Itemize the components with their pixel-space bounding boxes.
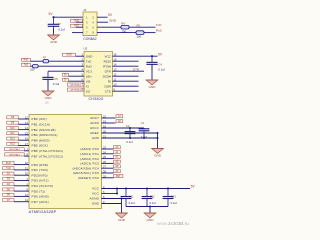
- svg-text:D12: D12: [10, 137, 15, 140]
- wire U2 DTR: [113, 70, 145, 72]
- svg-text:TxD: TxD: [86, 59, 92, 63]
- wire ADC6: [102, 122, 116, 124]
- junction 5V/C7: [52, 16, 54, 18]
- net label D6 (U1 PD6): [3, 193, 14, 196]
- capacitor C2: [125, 128, 136, 138]
- svg-text:CTS: CTS: [105, 89, 111, 93]
- wire D+ to U2: [68, 75, 84, 77]
- svg-text:V3.3: V3.3: [86, 69, 93, 73]
- svg-text:(RESET) PC6: (RESET) PC6: [78, 176, 99, 180]
- net label D5 (U1 PD5): [3, 188, 14, 191]
- wire J1 pin4 to GND: [97, 21, 108, 23]
- junction GND rail end: [156, 137, 158, 139]
- resistor R5: [136, 31, 144, 35]
- svg-text:(ADC2) PC2: (ADC2) PC2: [80, 157, 99, 161]
- junction C2/GND: [129, 137, 131, 139]
- wire GND bus drop: [149, 207, 151, 214]
- wire: [14, 164, 29, 166]
- junction VCC/C4: [151, 55, 153, 57]
- svg-text:XI: XI: [86, 84, 89, 88]
- svg-text:CRYSTAL2: CRYSTAL2: [70, 88, 82, 91]
- svg-text:PB6 (XTAL1/TOSC1): PB6 (XTAL1/TOSC1): [32, 149, 64, 153]
- net label D+ (U2 UD+): [63, 73, 69, 76]
- wire U2 V3.3 to C5: [48, 70, 84, 72]
- svg-text:PB2 (SS/OC1B): PB2 (SS/OC1B): [32, 128, 56, 132]
- svg-text:GND: GND: [109, 18, 117, 22]
- svg-text:CON6A2: CON6A2: [83, 37, 96, 41]
- net label RxD (U1 PD0): [3, 161, 14, 164]
- svg-text:CRYSTAL1: CRYSTAL1: [70, 83, 82, 86]
- svg-text:D11: D11: [10, 132, 15, 135]
- wire: [24, 150, 29, 152]
- wire GND label to U2: [76, 55, 85, 57]
- resistor R8: [33, 65, 39, 68]
- wire R5 to RxD: [144, 32, 156, 34]
- resistor R7: [43, 60, 49, 63]
- wire: [18, 129, 29, 131]
- wire: [14, 180, 29, 182]
- wire: [18, 118, 29, 120]
- net label RST: [114, 175, 123, 178]
- svg-text:RxD: RxD: [6, 162, 11, 165]
- svg-text:RTS#: RTS#: [103, 64, 111, 68]
- svg-text:(ADC0) PC0: (ADC0) PC0: [80, 147, 99, 151]
- net label TxD (U1 PD1): [3, 167, 14, 170]
- capacitor C11: [121, 189, 132, 207]
- svg-text:D10: D10: [10, 127, 15, 130]
- net label RST (J1 pin5): [71, 24, 83, 27]
- junction VCC1: [116, 187, 118, 189]
- net label A5: [114, 170, 121, 173]
- svg-text:TxD: TxD: [6, 167, 11, 170]
- wire U2 RTS# stub: [113, 65, 139, 67]
- svg-text:ADC6: ADC6: [90, 121, 99, 125]
- wire J1 pin7 stub: [72, 32, 83, 34]
- svg-text:CH340G: CH340G: [89, 97, 104, 101]
- wire: [102, 162, 114, 164]
- ground (decoupling caps): [144, 213, 156, 222]
- svg-text:AVCC: AVCC: [90, 126, 100, 130]
- svg-text:TxD: TxD: [156, 23, 162, 27]
- svg-text:PB0 (ICP): PB0 (ICP): [32, 117, 47, 121]
- net label A7: [116, 115, 123, 118]
- wire: [102, 158, 114, 160]
- wire: [14, 174, 29, 176]
- svg-text:C13: C13: [171, 194, 177, 198]
- wire R8 to U2 pin3: [38, 65, 84, 67]
- ground (C5): [42, 91, 54, 100]
- wire AREF rail: [102, 132, 158, 134]
- svg-text:GND: GND: [50, 40, 58, 44]
- ground (analog rails): [152, 149, 164, 158]
- svg-text:GND: GND: [149, 85, 157, 89]
- capacitor C5: [42, 71, 53, 85]
- svg-text:CRYSTAL2: CRYSTAL2: [9, 153, 21, 156]
- svg-text:GND: GND: [147, 218, 155, 222]
- net label A0: [114, 146, 121, 149]
- svg-text:C11: C11: [129, 194, 134, 198]
- svg-text:C7: C7: [57, 22, 61, 26]
- wire GND: [102, 203, 122, 205]
- junction C1/GND: [143, 137, 145, 139]
- svg-text:PD5 (T1): PD5 (T1): [32, 189, 46, 193]
- wire GND rail (analog): [102, 137, 158, 139]
- net label A4: [114, 165, 121, 168]
- junction C11/5V: [125, 187, 127, 189]
- wire R7 to U2 pin2: [49, 60, 84, 62]
- svg-text:RxD: RxD: [24, 59, 29, 62]
- wire: [18, 139, 29, 141]
- wire U2 DCD# stub: [113, 75, 139, 77]
- net label GND (J1 pin3): [71, 19, 83, 22]
- svg-text:U1: U1: [45, 100, 49, 104]
- ground (C7): [48, 35, 60, 44]
- svg-text:J1: J1: [83, 8, 86, 12]
- svg-text:PD1 (TXD): PD1 (TXD): [32, 168, 49, 172]
- wire: [14, 190, 29, 192]
- svg-text:RxD: RxD: [156, 29, 163, 33]
- svg-text:DSR: DSR: [104, 84, 111, 88]
- svg-text:ATMEGA328P: ATMEGA328P: [29, 209, 57, 214]
- wire: [102, 167, 114, 169]
- svg-text:(ADC3) PC3: (ADC3) PC3: [80, 162, 99, 166]
- wire U2 RI stub: [113, 80, 139, 82]
- net label A6: [116, 120, 123, 123]
- wire C7 to GND: [53, 29, 55, 35]
- svg-text:C4: C4: [158, 63, 162, 67]
- junction AGND: [120, 197, 122, 199]
- svg-text:0.1uf: 0.1uf: [129, 201, 135, 205]
- svg-text:VCC: VCC: [92, 187, 100, 191]
- wire: [18, 145, 29, 147]
- svg-text:R5: R5: [137, 23, 141, 27]
- net label GND (U2 pin1): [63, 53, 76, 56]
- net label D10 (U1 PB2): [7, 126, 18, 129]
- wire: [18, 134, 29, 136]
- ground (U1): [116, 213, 128, 222]
- wire J1 pin2 to 5V: [97, 16, 108, 18]
- svg-text:PB7 (XTAL2/TOSC2): PB7 (XTAL2/TOSC2): [32, 154, 64, 158]
- svg-text:XO: XO: [86, 89, 91, 93]
- svg-text:PB3 (MOSI/OC2): PB3 (MOSI/OC2): [32, 133, 58, 137]
- svg-text:R6: R6: [121, 22, 125, 26]
- wire VCC2: [102, 193, 118, 195]
- wire: [24, 155, 29, 157]
- svg-text:U2: U2: [84, 47, 88, 51]
- op IC U2 CH340G: [84, 52, 113, 97]
- wire U2 DSR stub: [113, 85, 139, 87]
- net label TxD (to U2 RxD): [22, 63, 31, 66]
- svg-text:PB1 (OC1A): PB1 (OC1A): [32, 122, 51, 126]
- svg-text:(ADC1) PC1: (ADC1) PC1: [80, 152, 99, 156]
- svg-text:GND: GND: [118, 218, 126, 222]
- svg-text:PD4 (XCK/T0): PD4 (XCK/T0): [32, 184, 54, 188]
- capacitor C12: [142, 189, 153, 207]
- svg-text:PB4 (MISO): PB4 (MISO): [32, 138, 50, 142]
- net label D13 (U1 PB5): [7, 142, 18, 145]
- svg-text:GND: GND: [66, 54, 72, 57]
- svg-text:D-: D-: [64, 79, 67, 82]
- svg-text:D13: D13: [10, 143, 15, 146]
- wire TxD to R8: [30, 65, 32, 67]
- svg-text:GND: GND: [92, 136, 100, 140]
- svg-text:0.1uf: 0.1uf: [58, 27, 65, 31]
- svg-text:PD3 (INT1): PD3 (INT1): [32, 179, 49, 183]
- capacitor C7: [48, 17, 60, 31]
- wire AVCC rail: [102, 127, 145, 129]
- capacitor C4: [146, 56, 157, 70]
- svg-text:DTR: DTR: [133, 68, 139, 72]
- wire: [14, 185, 29, 187]
- net label D- (U2 UD-): [63, 78, 69, 81]
- net label D3 (U1 PD3): [3, 177, 14, 180]
- svg-text:RI: RI: [108, 79, 111, 83]
- wire: [14, 201, 29, 203]
- svg-text:PB5 (SCK): PB5 (SCK): [32, 144, 49, 148]
- connector J1 CON6A2: [83, 12, 97, 36]
- net label A2: [114, 155, 121, 158]
- svg-text:GND: GND: [154, 154, 162, 158]
- net label A1: [114, 151, 121, 154]
- svg-text:C5: C5: [54, 77, 58, 81]
- svg-text:PD2(INT0): PD2(INT0): [32, 173, 48, 177]
- svg-text:0.1uf: 0.1uf: [53, 82, 60, 86]
- svg-text:AREF: AREF: [90, 131, 99, 135]
- wire RST label to J1: [76, 26, 83, 28]
- wire: [14, 195, 29, 197]
- net label CRYSTAL1 (U2 XI): [67, 83, 84, 86]
- net label RxD (to U2 TxD): [22, 58, 31, 61]
- svg-text:AGND: AGND: [89, 197, 99, 201]
- wire U2 VCC to 5V: [113, 55, 158, 57]
- junction VCC2: [116, 192, 118, 194]
- net label D8 (U1 PB0): [7, 116, 18, 119]
- junction C2/AVCC: [129, 127, 131, 129]
- svg-text:330: 330: [30, 68, 35, 72]
- MCU U1 ATMEGA328P: [29, 115, 102, 209]
- svg-text:C2: C2: [126, 124, 130, 128]
- svg-text:RxD: RxD: [86, 64, 93, 68]
- wire decoupling GND bus: [126, 206, 168, 208]
- resistor R6: [121, 25, 129, 29]
- svg-text:VCC: VCC: [104, 54, 111, 58]
- svg-text:R7: R7: [43, 55, 47, 59]
- capacitor C1: [139, 128, 150, 138]
- wire: [102, 148, 114, 150]
- wire J1 pin8 to R5: [97, 32, 136, 34]
- svg-text:100: 100: [137, 35, 142, 39]
- wire GND label to J1: [76, 21, 83, 23]
- net label D9 (U1 PB1): [7, 121, 18, 124]
- svg-text:C12: C12: [150, 194, 156, 198]
- net label D12 (U1 PB4): [7, 137, 18, 140]
- svg-text:UD+: UD+: [86, 74, 92, 78]
- wire U2 CTS stub: [113, 90, 139, 92]
- svg-text:0.1uf: 0.1uf: [150, 201, 156, 205]
- svg-text:PD0 (RXD): PD0 (RXD): [32, 163, 49, 167]
- svg-text:UD-: UD-: [86, 79, 91, 83]
- wire C4 to GND: [151, 64, 153, 80]
- wire VCC jog: [116, 189, 118, 194]
- wire 5V to J1 pin1: [54, 16, 84, 18]
- wire: [18, 123, 29, 125]
- junction C13/5V: [167, 187, 169, 189]
- svg-text:VCC: VCC: [92, 192, 100, 196]
- wire RxD to R7: [30, 60, 43, 62]
- svg-text:CRYSTAL1: CRYSTAL1: [9, 148, 21, 151]
- net label D2 (U1 PD2(INT0)): [3, 172, 14, 175]
- junction AREF end: [156, 132, 158, 134]
- net label D4 (U1 PD4): [3, 183, 14, 186]
- svg-text:0.1uf: 0.1uf: [171, 201, 177, 205]
- svg-text:DCD#: DCD#: [103, 74, 111, 78]
- capacitor C13: [163, 189, 174, 207]
- wire analog GND drop: [157, 133, 159, 149]
- wire: [14, 169, 29, 171]
- wire C5 to GND: [47, 79, 49, 91]
- wire VCC rail to 5V: [102, 188, 191, 190]
- wire AGND: [102, 198, 122, 200]
- wire: [102, 172, 114, 174]
- svg-text:R232: R232: [104, 59, 112, 63]
- wire: [102, 153, 114, 155]
- net label D7 (U1 PD7): [3, 199, 14, 202]
- wire R6 to TxD: [129, 26, 156, 28]
- wire ADC7: [102, 117, 116, 119]
- junction C12/5V: [146, 187, 148, 189]
- net label CRYSTAL2 (U2 XO): [67, 88, 84, 91]
- svg-text:TxD: TxD: [24, 64, 29, 67]
- ground (C4): [146, 80, 158, 89]
- wire D- to U2: [68, 80, 84, 82]
- svg-text:DTR: DTR: [105, 69, 112, 73]
- svg-text:GND: GND: [86, 54, 94, 58]
- net label CRYSTAL2 (U1 PB7): [5, 153, 25, 156]
- wire U2 R232 stub: [113, 60, 139, 62]
- wire: [102, 177, 114, 179]
- svg-text:ADC7: ADC7: [90, 116, 99, 120]
- svg-text:GND: GND: [92, 202, 100, 206]
- svg-text:www.zx303B.ru: www.zx303B.ru: [157, 221, 189, 226]
- svg-text:C1: C1: [141, 121, 145, 125]
- svg-text:(ADC5/SCL) PC5: (ADC5/SCL) PC5: [73, 171, 99, 175]
- net label A3: [114, 160, 121, 163]
- svg-text:0.1uf: 0.1uf: [126, 140, 132, 144]
- svg-text:PD6 (AIN0): PD6 (AIN0): [32, 195, 49, 199]
- net label D11 (U1 PB3): [7, 132, 18, 135]
- svg-text:(ADC4/SDA) PC4: (ADC4/SDA) PC4: [72, 166, 99, 170]
- svg-text:0.1uf: 0.1uf: [158, 67, 165, 71]
- svg-text:PD7 (AIN1): PD7 (AIN1): [32, 200, 49, 204]
- wire GND drop (U1): [121, 199, 123, 214]
- net label CRYSTAL1 (U1 PB6): [5, 148, 25, 151]
- wire J1 pin6 to R6: [97, 26, 121, 28]
- svg-text:RST: RST: [116, 175, 121, 178]
- junction GND bus: [149, 205, 151, 207]
